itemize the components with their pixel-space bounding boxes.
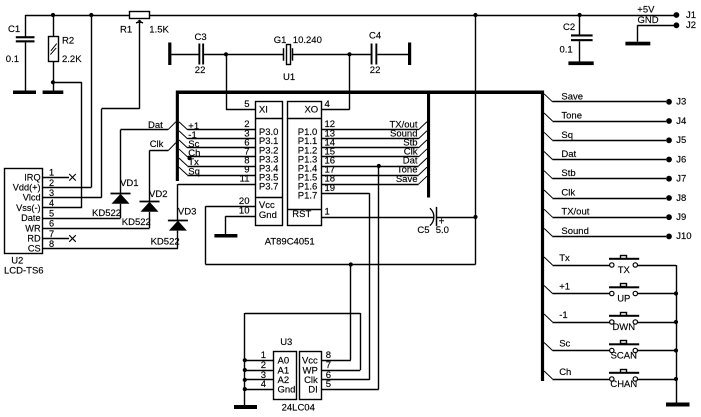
wire RST — [321, 217, 433, 219]
capacitor C4 — [369, 31, 381, 77]
svg-text:J6: J6 — [676, 154, 686, 165]
svg-text:Save: Save — [561, 91, 583, 102]
wire Sound to J10 — [544, 226, 666, 237]
connector J3 — [666, 97, 686, 108]
wire — [171, 54, 198, 56]
svg-text:XO: XO — [304, 104, 318, 115]
labels U2 pins — [13, 172, 41, 253]
label XO — [304, 104, 318, 115]
diode VD3 — [168, 207, 196, 249]
svg-text:22: 22 — [195, 65, 206, 76]
svg-text:7: 7 — [49, 229, 54, 239]
wire +1 to button UP — [544, 281, 609, 293]
svg-text:Tx: Tx — [559, 253, 570, 264]
wire Clk to J8 — [544, 188, 666, 199]
wire R2/Vss branch — [53, 82, 82, 208]
wire Tx to button TX — [544, 253, 609, 266]
connector J6 — [666, 154, 686, 165]
bus right vertical — [541, 94, 544, 381]
capacitor C3 — [195, 32, 207, 76]
bus top bar — [176, 91, 544, 95]
svg-text:XI: XI — [259, 104, 268, 115]
labels P1.x — [298, 127, 318, 202]
ground (U3) — [234, 405, 257, 409]
op-amp U3 body (24LC04) — [274, 352, 322, 400]
svg-text:R1: R1 — [120, 25, 132, 36]
svg-text:C4: C4 — [369, 31, 381, 42]
svg-text:C1: C1 — [8, 24, 20, 35]
wire Save to J3 — [544, 91, 666, 102]
svg-text:J10: J10 — [676, 231, 691, 242]
svg-text:C2: C2 — [563, 22, 575, 33]
label +5V — [637, 5, 655, 16]
svg-text:KD522: KD522 — [122, 217, 151, 228]
svg-text:5: 5 — [326, 379, 331, 390]
ground (buttons) — [666, 403, 690, 407]
svg-text:5: 5 — [244, 99, 249, 110]
svg-text:4: 4 — [325, 99, 330, 110]
label U2 — [11, 256, 23, 267]
label U1 — [283, 72, 295, 83]
svg-text:5.0: 5.0 — [436, 225, 449, 236]
wire Tone to J4 — [544, 111, 666, 122]
svg-text:VD3: VD3 — [178, 207, 196, 218]
ground (C1) — [13, 91, 36, 95]
wire button CHAN to common — [638, 379, 677, 381]
wire U2 pin4 Vss — [43, 207, 82, 209]
wires U3 pins 1-4 to ground chain — [243, 358, 274, 391]
label KD522 (VD3) — [151, 236, 180, 247]
svg-text:J2: J2 — [686, 20, 696, 31]
resistor R2 — [49, 13, 83, 91]
svg-text:J3: J3 — [676, 97, 686, 108]
labels U3 pins — [278, 356, 319, 396]
wire U2 pin5 Date — [43, 218, 121, 220]
svg-text:Clk: Clk — [150, 139, 164, 150]
wire button DWN to common — [638, 322, 677, 324]
switch TX — [609, 256, 639, 277]
wire Dat to J6 — [544, 149, 666, 160]
switch SCAN — [609, 341, 639, 362]
svg-text:2: 2 — [49, 178, 54, 188]
connector J10 — [666, 231, 691, 242]
wire Stb to J7 — [544, 168, 666, 179]
wire Vcc to U3 — [350, 265, 352, 361]
svg-text:2.2K: 2.2K — [62, 54, 82, 65]
svg-text:WR: WR — [25, 223, 41, 233]
wire GND — [637, 25, 676, 41]
wire Sc to button SCAN — [544, 338, 609, 350]
svg-text:Tone: Tone — [561, 111, 582, 122]
svg-text:LCD-TS6: LCD-TS6 — [4, 265, 44, 276]
connector J7 — [666, 174, 686, 185]
svg-text:C3: C3 — [195, 32, 207, 43]
wire — [204, 52, 371, 56]
switch UP — [609, 284, 639, 305]
svg-text:Date: Date — [21, 213, 40, 223]
svg-text:AT89C4051: AT89C4051 — [265, 237, 315, 248]
label 24LC04 — [282, 403, 315, 414]
ground (GND) — [625, 42, 650, 46]
label GND — [638, 15, 659, 26]
wire — [377, 54, 408, 56]
wire U2 pin8 CS — [43, 248, 178, 250]
label RST — [292, 209, 311, 220]
label KD522 (VD1) — [92, 208, 121, 219]
label Vcc — [259, 200, 275, 211]
svg-text:U1: U1 — [283, 72, 295, 83]
wire +5V vertical — [473, 13, 477, 265]
label AT89C4051 — [265, 237, 315, 248]
svg-text:Ch: Ch — [559, 367, 571, 378]
svg-text:J7: J7 — [676, 174, 686, 185]
svg-text:G1: G1 — [274, 35, 287, 46]
terminal bar right (C4) — [408, 43, 411, 66]
svg-text:Gnd: Gnd — [278, 384, 296, 395]
wire P1.7 to U3 Clk — [321, 193, 369, 380]
svg-text:Sc: Sc — [559, 338, 570, 349]
wire Sq to J5 — [544, 130, 666, 141]
svg-text:1.5K: 1.5K — [149, 25, 169, 36]
labels P3.x — [259, 127, 279, 192]
svg-text:22: 22 — [370, 65, 381, 76]
wires U1 P1 pins to bus (TX/out Sound Stb Clk Dat Tone Save) — [321, 119, 427, 184]
wire U2 pin1 IRQ n/c — [43, 174, 76, 181]
svg-text:Sound: Sound — [561, 226, 588, 237]
pin numbers U3 — [261, 350, 331, 390]
diode VD2 — [140, 150, 168, 228]
node P1.4/Dat to U3 DI — [377, 164, 381, 389]
wire Dat — [121, 120, 177, 131]
svg-text:J9: J9 — [676, 212, 686, 223]
capacitor C5 (polarized) — [417, 207, 475, 236]
wire U2 pin6 WR — [43, 228, 150, 230]
svg-text:VD1: VD1 — [120, 178, 138, 189]
svg-text:8: 8 — [49, 239, 54, 249]
svg-text:+1: +1 — [559, 281, 570, 292]
svg-text:C5: C5 — [417, 225, 429, 236]
svg-text:Sq: Sq — [188, 166, 200, 177]
wire U3 Clk pin6 — [322, 379, 370, 381]
ground (C2) — [568, 61, 593, 65]
svg-text:Vdd(+): Vdd(+) — [13, 183, 41, 193]
svg-text:6: 6 — [49, 219, 54, 229]
wire U3 WP pin7 — [322, 370, 361, 372]
svg-text:Dat: Dat — [148, 120, 163, 131]
wires bus to P3 pins (+1 -1 Sc Ch Tx Sq) — [179, 121, 255, 177]
connector J2 — [674, 20, 697, 31]
svg-text:TX/out: TX/out — [561, 207, 589, 218]
svg-text:RD: RD — [27, 234, 41, 244]
wire U2 pin3 Vlcd — [43, 197, 102, 199]
pin numbers U1 right — [325, 99, 336, 217]
pin numbers U2 — [49, 168, 54, 249]
wire Gnd pin10 — [225, 216, 255, 234]
pin numbers U1 left — [239, 99, 250, 217]
svg-text:R2: R2 — [62, 36, 74, 47]
node on Ch wire — [187, 156, 191, 160]
svg-text:Dat: Dat — [561, 149, 576, 160]
wire Ch to button CHAN — [544, 367, 609, 380]
connector J8 — [666, 193, 686, 204]
svg-text:KD522: KD522 — [151, 236, 180, 247]
label U3 — [280, 337, 292, 348]
wire button UP to common — [638, 293, 677, 295]
wire U3 DI pin5 — [322, 389, 379, 391]
capacitor C1 — [6, 15, 35, 91]
wire XO — [321, 54, 349, 109]
resistor R1 (trimmer) — [120, 12, 170, 109]
svg-text:4: 4 — [261, 379, 266, 390]
wire U2 pin2 Vdd — [43, 187, 92, 189]
bus middle vertical — [427, 94, 430, 198]
svg-text:DWN: DWN — [612, 322, 635, 333]
svg-text:Stb: Stb — [561, 168, 575, 179]
svg-text:10: 10 — [239, 206, 250, 217]
wire U2 pin7 RD n/c — [43, 235, 76, 242]
svg-text:P3.7: P3.7 — [259, 182, 279, 193]
svg-text:GND: GND — [638, 15, 659, 26]
label LCD-TS6 — [4, 265, 44, 276]
svg-text:Vss(-): Vss(-) — [16, 203, 41, 213]
wire Clk — [150, 139, 177, 151]
svg-text:5: 5 — [49, 208, 54, 218]
connector J1 — [674, 10, 697, 21]
wire XI — [226, 54, 255, 109]
connector J4 — [666, 116, 686, 127]
diode VD1 — [111, 130, 139, 218]
svg-text:3: 3 — [49, 188, 54, 198]
svg-text:TX: TX — [618, 265, 631, 276]
svg-text:24LC04: 24LC04 — [282, 403, 315, 414]
connector J5 — [666, 135, 686, 146]
wire U3 Vcc pin8 — [322, 360, 351, 362]
wire rail to U2 Vdd — [89, 13, 93, 188]
svg-text:UP: UP — [617, 294, 630, 305]
capacitor C2 — [560, 13, 593, 62]
bus left vertical — [176, 94, 179, 181]
svg-text:SCAN: SCAN — [611, 351, 638, 362]
wire -1 to button DWN — [544, 310, 609, 323]
label Gnd — [259, 210, 277, 221]
svg-text:KD522: KD522 — [92, 208, 121, 219]
svg-text:CS: CS — [28, 244, 41, 254]
svg-text:U3: U3 — [280, 337, 292, 348]
wire button SCAN to common — [638, 350, 677, 352]
svg-text:0.1: 0.1 — [6, 54, 19, 65]
svg-text:Sq: Sq — [561, 130, 573, 141]
wire U3 ground chain — [245, 313, 361, 405]
svg-text:J5: J5 — [676, 135, 686, 146]
switch CHAN — [609, 370, 639, 391]
wire +5V top rail — [25, 15, 676, 17]
svg-text:Vlcd: Vlcd — [23, 193, 41, 203]
svg-text:1: 1 — [49, 168, 54, 178]
ground (U1) — [214, 234, 237, 238]
crystal G1 — [274, 35, 322, 65]
wire button TX to common — [638, 265, 677, 267]
svg-text:RST: RST — [292, 209, 311, 220]
op-amp U1 body (AT89C4051) — [255, 102, 322, 226]
wire TX/out to J9 — [544, 207, 666, 218]
op-amp U2 body (LCD-TS6) — [5, 169, 43, 254]
svg-text:4: 4 — [49, 198, 54, 208]
svg-text:-1: -1 — [559, 310, 567, 321]
ground (R2) — [43, 91, 64, 95]
wire P3.7 to VD3 — [178, 184, 256, 220]
svg-text:+5V: +5V — [637, 5, 655, 16]
wire Vcc net (pin20 to +5V) — [206, 206, 476, 266]
svg-text:0.1: 0.1 — [560, 45, 573, 56]
svg-text:J4: J4 — [676, 116, 686, 127]
switch DWN — [609, 313, 639, 334]
terminal bar left (C3) — [168, 43, 171, 66]
svg-text:DI: DI — [308, 384, 318, 395]
connector J9 — [666, 212, 686, 223]
svg-text:Gnd: Gnd — [259, 210, 277, 221]
svg-text:IRQ: IRQ — [24, 172, 40, 182]
svg-text:P1.7: P1.7 — [298, 191, 318, 202]
svg-text:CHAN: CHAN — [610, 379, 637, 390]
wire R1 wiper to U2 Vlcd — [102, 109, 140, 198]
svg-text:10.240: 10.240 — [293, 35, 322, 46]
svg-text:Save: Save — [396, 174, 418, 185]
svg-text:1: 1 — [325, 207, 330, 218]
svg-text:Clk: Clk — [561, 188, 575, 199]
svg-text:VD2: VD2 — [149, 189, 167, 200]
svg-text:J8: J8 — [676, 193, 686, 204]
label KD522 (VD2) — [122, 217, 151, 228]
wire buttons common vertical — [674, 265, 678, 403]
label XI — [259, 104, 268, 115]
